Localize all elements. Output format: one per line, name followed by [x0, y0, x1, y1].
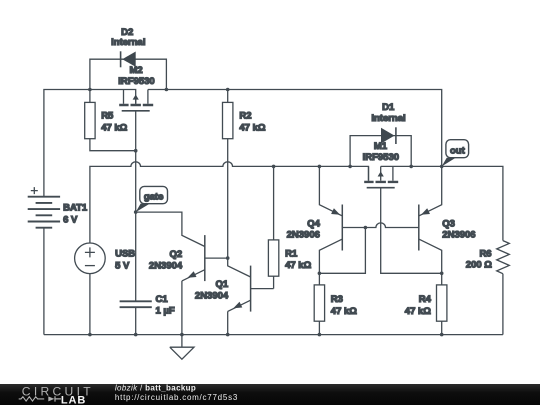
flag out tail — [442, 158, 456, 167]
svg-text:5 V: 5 V — [115, 260, 130, 271]
flag gate box — [140, 186, 168, 203]
node USB bottom — [88, 333, 92, 337]
transistor Q4 base bar — [341, 205, 343, 251]
node Q4 emitter junction — [318, 165, 322, 169]
wire M2 right terminal and top rail right segment — [148, 90, 442, 167]
mosfet M1 left terminal — [368, 166, 370, 180]
svg-text:2N3906: 2N3906 — [442, 229, 475, 240]
mosfet M2 gate bar — [122, 110, 150, 112]
svg-text:47 kΩ: 47 kΩ — [285, 260, 311, 271]
wire top rail left segment to M2 body — [90, 90, 136, 104]
svg-text:2N3904: 2N3904 — [195, 290, 229, 301]
transistor Q3 base bar — [418, 205, 420, 251]
wire M1 right terminal — [392, 166, 394, 180]
diode D2 triangle — [122, 52, 135, 67]
wire Q2 emitter to ground rail — [181, 281, 183, 335]
svg-text:R3: R3 — [331, 294, 343, 305]
diode D1 triangle — [381, 128, 395, 144]
node out junction — [440, 165, 444, 169]
svg-text:2N3904: 2N3904 — [149, 261, 183, 272]
resistor R5 body — [85, 102, 95, 138]
transistor Q1 emitter — [228, 300, 251, 311]
svg-text:USB: USB — [115, 249, 135, 260]
resistor R4 body — [437, 285, 447, 321]
mosfet M2 channel bars — [119, 104, 153, 106]
wire USB top lead and lower rail with hops — [90, 162, 369, 243]
wire Q1 collector — [228, 258, 251, 277]
svg-text:D2: D2 — [121, 27, 133, 38]
footer bar — [0, 384, 540, 405]
node R3 bottom — [318, 333, 322, 337]
resistor R1 top lead — [273, 166, 275, 240]
transistor Q4 emitter arrowhead — [331, 208, 340, 215]
voltage source USB minus — [85, 265, 95, 267]
battery BAT1 negative lead to ground rail — [43, 228, 45, 335]
diode D1 wire loop — [350, 136, 411, 167]
wire R2 bottom to Q2 base node — [227, 139, 229, 258]
node R5 / M2 gate junction — [134, 149, 138, 153]
svg-text:2N3906: 2N3906 — [287, 229, 320, 240]
capacitor C1 plates — [120, 301, 152, 307]
mosfet M1 body arrow lead — [380, 166, 382, 180]
svg-text:Q1: Q1 — [216, 279, 229, 290]
transistor Q1 emitter arrowhead — [233, 302, 242, 309]
svg-text:47 kΩ: 47 kΩ — [239, 123, 265, 134]
svg-text:IRF9530: IRF9530 — [118, 76, 154, 87]
resistor R4 bottom lead — [441, 321, 443, 334]
wire M2 gate down to gate node — [135, 111, 137, 212]
wire ground rail — [44, 334, 503, 336]
svg-text:internal: internal — [371, 113, 405, 124]
resistor R2 body — [223, 102, 233, 138]
resistor R4 top lead — [441, 273, 443, 285]
svg-text:Q3: Q3 — [442, 218, 455, 229]
transistor Q2 emitter arrowhead — [188, 271, 197, 278]
battery BAT1 plus sign — [31, 187, 38, 194]
svg-text:47 kΩ: 47 kΩ — [101, 123, 127, 134]
node Q1 emitter bottom — [226, 333, 230, 337]
transistor Q2 base wire — [205, 257, 228, 259]
svg-text:LAB: LAB — [61, 394, 86, 405]
node R2 top junction — [226, 88, 230, 92]
diode D2 cathode bar — [120, 51, 122, 67]
wire Q4 collector feedback to base — [319, 228, 365, 274]
voltage source USB circle — [75, 243, 106, 274]
node D2 right junction — [165, 88, 169, 92]
svg-text:BAT1: BAT1 — [63, 203, 88, 214]
mosfet M2 body arrowhead — [133, 95, 139, 100]
svg-text:47 kΩ: 47 kΩ — [405, 306, 431, 317]
mosfet M2 body arrow lead — [135, 96, 137, 104]
transistor Q3 emitter lead — [419, 166, 442, 216]
transistor Q3 emitter arrowhead — [421, 208, 430, 215]
node R1 top junction — [272, 165, 276, 169]
battery BAT1 plates — [28, 197, 60, 228]
svg-text:IRF9530: IRF9530 — [363, 152, 399, 163]
mosfet M1 channel bars — [364, 181, 398, 183]
node Q3 collector / R4 / M1 gate junction — [440, 272, 444, 276]
svg-text:R2: R2 — [239, 111, 251, 122]
node C1 bottom — [134, 333, 138, 337]
battery BAT1 positive wire to top rail — [44, 90, 90, 197]
svg-text:6 V: 6 V — [63, 214, 78, 225]
transistor Q4 emitter lead — [319, 166, 342, 216]
svg-text:47 kΩ: 47 kΩ — [331, 306, 357, 317]
wire M1 gate down and right to Q3 collector node — [381, 188, 442, 274]
node Q4 collector / R3 junction — [318, 272, 322, 276]
svg-text:lobzik / batt_backup: lobzik / batt_backup — [115, 384, 196, 393]
node Q2 base / R2 / Q1 collector junction — [226, 256, 230, 260]
resistor R3 bottom lead — [318, 321, 320, 334]
wire USB bottom lead — [89, 274, 91, 335]
node Q4 collector to base junction — [364, 226, 368, 230]
node gate flag junction — [134, 210, 138, 214]
svg-text:gate: gate — [144, 191, 164, 202]
resistor R2 top lead — [227, 90, 229, 103]
svg-text:Q4: Q4 — [307, 218, 320, 229]
svg-text:http://circuitlab.com/c77d5s3: http://circuitlab.com/c77d5s3 — [115, 393, 238, 402]
svg-text:200 Ω: 200 Ω — [466, 260, 492, 271]
svg-text:out: out — [450, 146, 466, 157]
svg-text:R5: R5 — [101, 111, 114, 122]
transistor Q4 collector — [319, 239, 342, 273]
capacitor C1 bottom lead — [135, 307, 137, 334]
transistor Q1 base wire to R1 — [251, 276, 274, 288]
resistor R1 body — [268, 240, 278, 276]
svg-text:D1: D1 — [382, 102, 395, 113]
svg-text:R4: R4 — [419, 294, 432, 305]
svg-text:R1: R1 — [285, 249, 298, 260]
wire Q1 emitter to ground rail — [227, 311, 229, 334]
svg-text:internal: internal — [111, 37, 145, 48]
voltage source USB plus — [85, 247, 95, 257]
logo resistor squiggle — [19, 397, 45, 401]
node top rail / R5 / D2 junction — [88, 88, 92, 92]
svg-text:M2: M2 — [129, 65, 142, 76]
flag out box — [446, 140, 469, 158]
transistor Q3 collector — [419, 239, 442, 273]
resistor R6 bottom lead — [502, 274, 504, 335]
transistor Q1 base bar — [250, 266, 252, 312]
resistor R3 top lead — [318, 273, 320, 285]
resistor R6 zigzag — [497, 241, 510, 274]
node D1 right junction — [409, 165, 413, 169]
svg-text:1 µF: 1 µF — [156, 305, 175, 316]
svg-text:Q2: Q2 — [170, 249, 183, 260]
svg-text:R6: R6 — [479, 249, 491, 260]
node ground symbol junction — [180, 333, 184, 337]
resistor R3 body — [314, 285, 324, 321]
transistor Q2 base bar — [204, 235, 206, 281]
svg-text:M1: M1 — [374, 141, 388, 152]
mosfet M1 gate bar — [367, 187, 395, 189]
wire Q3 Q4 base with hop over M1 gate — [342, 223, 419, 228]
wire M2 left terminal — [123, 90, 125, 104]
wire lower rail right segment from M1 body to R6 — [381, 166, 503, 240]
node R4 bottom — [440, 333, 444, 337]
resistor R5 bottom lead wire to gate column — [90, 139, 136, 151]
flag gate tail — [136, 204, 150, 213]
diode D2 wire loop — [90, 59, 166, 89]
mosfet M1 body arrowhead — [378, 171, 384, 176]
diode D1 cathode bar — [395, 127, 397, 144]
node D1 left junction — [348, 165, 352, 169]
logo diode symbol — [48, 396, 54, 401]
capacitor C1 top lead — [135, 212, 137, 301]
resistor R5 top lead — [89, 90, 91, 103]
svg-text:C1: C1 — [156, 294, 169, 305]
transistor Q2 emitter — [182, 270, 205, 281]
ground symbol — [170, 335, 194, 360]
wire gate node to Q2 collector — [136, 212, 205, 246]
